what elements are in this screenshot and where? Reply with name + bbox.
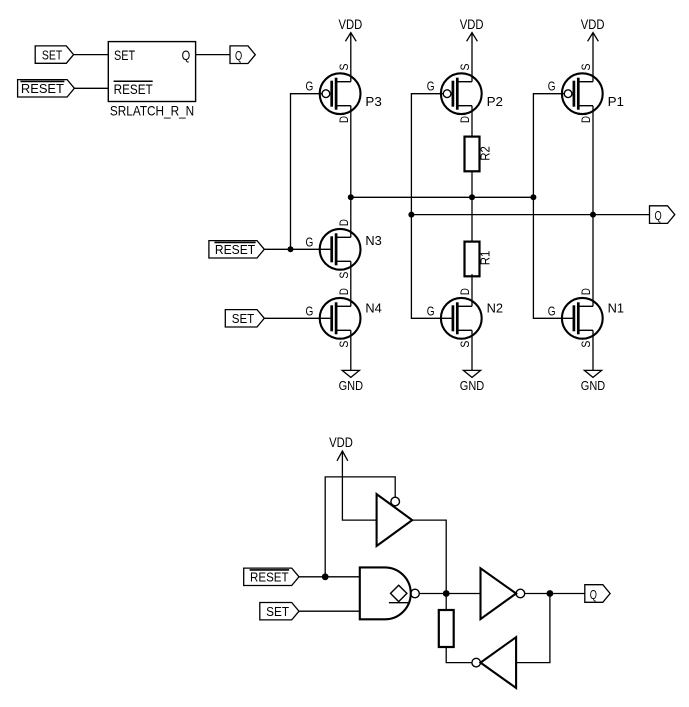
svg-text:RESET: RESET	[21, 81, 64, 96]
svg-text:G: G	[427, 304, 435, 318]
svg-text:P2: P2	[487, 94, 503, 109]
transistor N4	[306, 288, 382, 348]
wire N3 source to N4 drain	[350, 261, 352, 306]
svg-text:GND: GND	[460, 378, 484, 393]
svg-text:R2: R2	[478, 146, 493, 161]
svg-text:S: S	[579, 64, 593, 71]
svg-text:P3: P3	[365, 94, 381, 109]
svg-text:G: G	[427, 80, 435, 94]
resistor R1	[465, 242, 493, 277]
wire RESET to block	[74, 87, 108, 89]
node junction P1 drain / lower bus / N1 drain	[590, 212, 596, 218]
svg-text:D: D	[458, 288, 472, 295]
svg-text:GND: GND	[581, 378, 605, 393]
output inverter	[481, 568, 525, 619]
svg-text:RESET: RESET	[250, 570, 289, 585]
input flag RESET (gate-level)	[244, 568, 299, 585]
node junction P3 drain / bus	[348, 194, 354, 200]
wire bus to R1	[471, 197, 473, 241]
wire feedback inverter output to resistor bottom	[446, 647, 472, 663]
wire RESET to NAND input A	[299, 576, 360, 578]
wire P2 gate to lower bus	[411, 94, 443, 215]
svg-text:D: D	[458, 116, 472, 123]
wire P1 drain to lower bus	[592, 106, 594, 215]
wire buffer output down to NAND output node	[412, 520, 446, 593]
node junction R2/R1/bus	[469, 194, 475, 200]
svg-text:S: S	[458, 341, 472, 348]
input flag SET (block diagram)	[35, 46, 73, 63]
wire P1 gate to upper bus and N1 gate	[533, 94, 572, 319]
svg-text:N3: N3	[365, 233, 381, 248]
wire lower-bus node down to N2 gate	[411, 215, 451, 319]
svg-text:G: G	[548, 80, 556, 94]
ground GND (column of N2)	[460, 330, 484, 393]
upper bus wire (P3 drain to P1/N1 gates)	[351, 196, 534, 198]
tri-state pull-up buffer	[377, 494, 413, 546]
wire R1 to N2 drain	[471, 274, 473, 306]
NAND gate (open-drain)	[360, 567, 420, 619]
node junction NAND output	[443, 590, 450, 597]
svg-text:RESET: RESET	[215, 242, 255, 257]
transistor P3	[306, 64, 382, 124]
power VDD (column of P3)	[339, 16, 363, 82]
transistor P2	[427, 64, 503, 124]
svg-text:D: D	[337, 288, 351, 295]
ground GND (column of N4)	[339, 330, 363, 393]
input flag RESET (transistor schematic)	[209, 241, 264, 258]
wire lower bus to N1 drain	[592, 215, 594, 307]
wire RESET to N3 gate	[264, 248, 330, 250]
svg-text:SET: SET	[114, 47, 135, 63]
svg-text:VDD: VDD	[339, 16, 363, 32]
svg-text:Q: Q	[655, 208, 662, 223]
svg-text:VDD: VDD	[329, 434, 353, 450]
wire Q node down to feedback inverter input	[516, 594, 550, 663]
svg-text:N2: N2	[487, 301, 503, 316]
wire block to Q flag	[196, 54, 230, 56]
svg-text:G: G	[306, 304, 314, 318]
svg-text:D: D	[337, 219, 351, 226]
output flag Q (transistor schematic)	[650, 206, 675, 224]
wire R2 to bus	[471, 171, 473, 197]
svg-text:SET: SET	[266, 604, 289, 619]
svg-text:R1: R1	[478, 251, 493, 266]
svg-text:Q: Q	[182, 47, 191, 63]
block U? SRLATCH_R_N body	[108, 42, 195, 119]
transistor N1	[548, 288, 624, 348]
svg-text:S: S	[337, 272, 351, 279]
open-drain diamond symbol	[391, 585, 407, 601]
wire P3 gate to node	[291, 94, 323, 250]
svg-text:S: S	[579, 341, 593, 348]
wire SET to NAND input B	[299, 610, 360, 612]
svg-text:S: S	[337, 341, 351, 348]
wire SET to block	[74, 54, 109, 56]
svg-text:N4: N4	[365, 301, 381, 316]
svg-text:Q: Q	[590, 587, 597, 602]
svg-text:RESET: RESET	[114, 81, 153, 97]
svg-text:S: S	[458, 64, 472, 71]
node junction P2 gate / lower bus	[408, 212, 414, 218]
svg-text:GND: GND	[339, 378, 363, 393]
svg-text:D: D	[579, 288, 593, 295]
svg-text:N1: N1	[608, 301, 624, 316]
svg-text:SET: SET	[42, 48, 62, 63]
svg-text:P1: P1	[608, 94, 624, 109]
wire bus to N3 drain	[350, 197, 352, 237]
svg-text:G: G	[306, 80, 314, 94]
svg-text:G: G	[306, 235, 314, 249]
svg-text:VDD: VDD	[460, 16, 484, 32]
input flag SET (gate-level)	[260, 603, 299, 620]
svg-text:D: D	[337, 116, 351, 123]
transistor P1	[548, 64, 624, 124]
power VDD (column of P1)	[581, 16, 605, 82]
ground GND (column of N1)	[581, 330, 605, 393]
node junction RESET/P3 gate/N3 gate	[288, 246, 294, 252]
svg-text:SET: SET	[232, 311, 255, 326]
wire P3 drain down to bus	[350, 106, 352, 198]
svg-text:SRLATCH_R_N: SRLATCH_R_N	[110, 103, 194, 119]
input flag RESET (block diagram)	[18, 80, 75, 97]
svg-text:VDD: VDD	[581, 16, 605, 32]
node junction Q	[547, 590, 554, 597]
output flag Q (gate-level)	[585, 585, 610, 603]
power VDD (column of P2)	[460, 16, 484, 82]
wire NAND output to node	[419, 593, 446, 595]
wire P2 drain to R2	[471, 106, 473, 137]
wire VDD stem to buffer input	[342, 451, 376, 520]
transistor N3	[306, 219, 382, 279]
node junction P1 gate / upper bus	[530, 194, 536, 200]
NAND output bubble	[411, 589, 420, 598]
wire node to inverter input	[446, 593, 480, 595]
svg-text:G: G	[548, 304, 556, 318]
transistor N2	[427, 288, 503, 348]
svg-text:S: S	[337, 64, 351, 71]
resistor R2	[465, 137, 493, 172]
power VDD (gate-level)	[329, 434, 377, 520]
svg-text:Q: Q	[235, 48, 242, 63]
svg-text:D: D	[579, 116, 593, 123]
node junction RESET / buffer enable	[322, 573, 329, 580]
wire RESET node up and over to buffer enable bubble	[325, 477, 395, 577]
wire inverter output to Q node	[525, 593, 585, 595]
feedback inverter (pointing left)	[472, 637, 516, 688]
feedback resistor (unlabeled)	[439, 610, 454, 647]
wire SET to N4 gate	[264, 317, 330, 319]
wire node down to feedback resistor	[445, 594, 447, 611]
lower bus wire (Q net)	[411, 214, 649, 216]
output flag Q (block diagram)	[230, 46, 255, 64]
input flag SET (transistor schematic)	[225, 310, 264, 327]
